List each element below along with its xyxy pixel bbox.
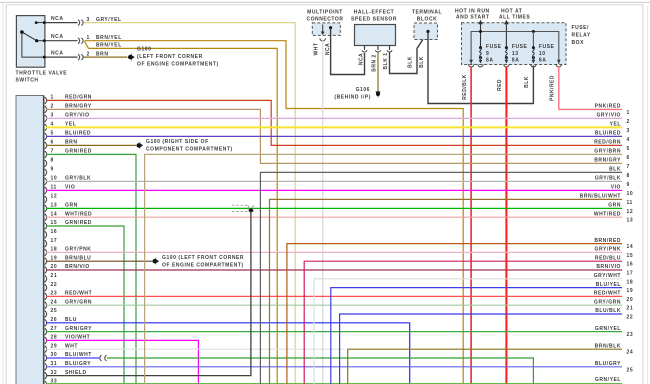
connector pin 8 <box>45 160 47 167</box>
svg-text:10: 10 <box>539 51 546 57</box>
svg-text:15: 15 <box>51 220 58 226</box>
wire pin 31 BLU/GRY straight <box>46 366 622 368</box>
svg-text:BLU/YEL: BLU/YEL <box>596 282 621 288</box>
svg-text:NCA: NCA <box>51 16 63 22</box>
wire pin 6 BRN to G100 right side <box>46 144 136 146</box>
connector pin 30 <box>45 355 47 362</box>
svg-text:TERMINAL: TERMINAL <box>412 10 442 16</box>
svg-text:BLK: BLK <box>609 167 621 173</box>
svg-text:9: 9 <box>627 182 630 188</box>
svg-text:BRN/VIO: BRN/VIO <box>596 264 621 270</box>
svg-text:RED/WHT: RED/WHT <box>594 291 621 297</box>
svg-text:GRY/PNK: GRY/PNK <box>65 247 91 253</box>
wire BLU/BLK riser <box>340 314 622 384</box>
svg-text:VIO: VIO <box>611 185 621 191</box>
svg-text:WHT/RED: WHT/RED <box>65 211 92 217</box>
svg-text:OF ENGINE COMPARTMENT): OF ENGINE COMPARTMENT) <box>137 62 219 68</box>
wire pin 4 YEL straight <box>46 126 622 128</box>
svg-text:MULTIPOINT: MULTIPOINT <box>307 10 343 16</box>
svg-text:GRY/BLK: GRY/BLK <box>65 176 91 182</box>
left connector (control module) <box>16 96 44 384</box>
wire BLK from sensor pin 1 to terminal block <box>390 32 429 74</box>
svg-text:19: 19 <box>627 288 634 294</box>
svg-text:FUSE/: FUSE/ <box>572 25 590 31</box>
svg-text:BLK: BLK <box>524 76 530 88</box>
wire pin 19 BRN/BLU to G100 <box>46 260 152 262</box>
svg-text:BLU/BLK: BLU/BLK <box>595 308 621 314</box>
svg-text:BRN: BRN <box>96 51 108 57</box>
svg-text:PNK/RED: PNK/RED <box>595 104 621 110</box>
connector pin 6 <box>45 142 47 149</box>
svg-text:9: 9 <box>486 51 489 57</box>
svg-text:8A: 8A <box>512 58 520 64</box>
svg-text:26: 26 <box>51 317 58 323</box>
connector pin 18 <box>45 249 47 256</box>
svg-text:10: 10 <box>51 176 58 182</box>
svg-text:4: 4 <box>627 137 630 143</box>
connector pin 13 <box>45 205 47 212</box>
svg-text:27: 27 <box>51 326 58 332</box>
svg-text:BRN/BLK: BRN/BLK <box>595 343 621 349</box>
svg-text:FUSE: FUSE <box>486 44 502 50</box>
svg-text:16: 16 <box>51 229 58 235</box>
svg-text:3: 3 <box>627 128 630 134</box>
connector pin 15 <box>45 223 47 230</box>
svg-text:(LEFT FRONT CORNER: (LEFT FRONT CORNER <box>137 54 203 60</box>
wire pin 26 BLU down <box>46 323 410 384</box>
connector pin 32 <box>45 372 47 379</box>
svg-text:VIO/WHT: VIO/WHT <box>65 335 90 341</box>
throttle valve switch <box>16 16 45 68</box>
svg-text:GRY/BLK: GRY/BLK <box>595 176 621 182</box>
svg-text:3: 3 <box>87 17 90 23</box>
connector pin 20 <box>45 267 47 274</box>
wire pin 5 BLU/RED straight <box>46 135 622 137</box>
svg-text:1: 1 <box>51 95 54 101</box>
svg-text:20: 20 <box>627 297 634 303</box>
inline connector on GRN wire <box>232 204 247 206</box>
svg-text:BRN 2: BRN 2 <box>372 54 378 72</box>
svg-text:RED/BLU: RED/BLU <box>595 255 621 261</box>
svg-text:GRN/YEL: GRN/YEL <box>595 377 621 383</box>
svg-text:RELAY: RELAY <box>572 33 591 39</box>
wire pin 2 BRN/GRY to right row 7 <box>46 109 622 163</box>
svg-text:3: 3 <box>51 113 54 119</box>
svg-text:NCA: NCA <box>325 43 331 55</box>
wire pin 14 WHT/RED straight <box>46 216 622 218</box>
svg-text:VIO: VIO <box>65 185 75 191</box>
svg-text:31: 31 <box>51 361 58 367</box>
wire RED from fuse 13 <box>505 67 507 384</box>
connector pin 24 <box>45 302 47 309</box>
svg-text:5: 5 <box>51 131 54 137</box>
connector pin 33 <box>45 381 47 384</box>
wire pin 10 GRY/BLK straight <box>46 180 622 182</box>
svg-text:BLU/WHT: BLU/WHT <box>65 352 92 358</box>
wire pin 24 GRY/GRN straight <box>46 304 622 306</box>
svg-text:G100 (LEFT FRONT CORNER: G100 (LEFT FRONT CORNER <box>162 255 244 261</box>
wire GRY/BRN riser <box>145 154 622 384</box>
svg-text:ALL TIMES: ALL TIMES <box>499 15 530 21</box>
svg-text:SPEED SENSOR: SPEED SENSOR <box>351 17 397 23</box>
svg-text:8A: 8A <box>539 58 547 64</box>
svg-text:BLK: BLK <box>408 56 414 68</box>
svg-text:BRN: BRN <box>65 140 77 146</box>
ground G100 (left front corner) top <box>130 54 132 61</box>
svg-text:12: 12 <box>51 194 58 200</box>
svg-text:GRY/BRN: GRY/BRN <box>594 149 621 155</box>
svg-text:8A: 8A <box>486 58 494 64</box>
connector pin 16 <box>45 231 47 238</box>
svg-text:PNK/RED: PNK/RED <box>550 75 556 101</box>
svg-text:THROTTLE VALVE: THROTTLE VALVE <box>16 71 68 77</box>
connector pin 7 <box>45 151 47 158</box>
svg-text:GRN/RED: GRN/RED <box>65 220 92 226</box>
fuse 10 <box>532 46 535 49</box>
connector pin 27 <box>45 328 47 335</box>
svg-text:GRY/VIO: GRY/VIO <box>65 113 90 119</box>
svg-text:18: 18 <box>51 247 58 253</box>
connector pin 22 <box>45 284 47 291</box>
svg-text:BLK: BLK <box>419 56 425 68</box>
svg-text:17: 17 <box>51 238 58 244</box>
wire pin 29 WHT <box>46 348 345 350</box>
connector pin 29 <box>45 346 47 353</box>
svg-text:NCA: NCA <box>359 53 365 65</box>
svg-text:G100 (RIGHT SIDE OF: G100 (RIGHT SIDE OF <box>146 139 209 145</box>
throttle lead 2 <box>46 56 78 58</box>
wire pin 18 GRY/PNK straight <box>46 251 622 253</box>
wire pin 28 VIO/WHT down <box>46 340 198 384</box>
wire BLK riser <box>260 172 622 384</box>
svg-text:HOT AT: HOT AT <box>501 9 522 15</box>
svg-text:WHT/RED: WHT/RED <box>594 211 621 217</box>
wire pin 32 SHIELD up to GRN tap <box>46 211 251 375</box>
svg-text:29: 29 <box>51 343 58 349</box>
svg-text:13: 13 <box>512 51 519 57</box>
svg-text:25: 25 <box>627 367 634 373</box>
wire BRN/BLU/WHT riser <box>270 199 623 384</box>
wire pin 23 RED/WHT straight <box>46 295 622 297</box>
svg-text:9: 9 <box>51 167 54 173</box>
connector pin 5 <box>45 133 47 140</box>
svg-text:HOT IN RUN: HOT IN RUN <box>455 9 490 15</box>
svg-text:BRN/BLU: BRN/BLU <box>65 255 91 261</box>
svg-text:24: 24 <box>51 299 58 305</box>
wire pin 15 GRN/RED down <box>46 226 124 384</box>
wire pin 33 GRN/YEL (at cut edge, mostly off-screen) <box>46 383 622 384</box>
svg-text:11: 11 <box>51 185 57 191</box>
svg-text:17: 17 <box>627 271 634 277</box>
svg-text:BRN/BLU/WHT: BRN/BLU/WHT <box>580 194 621 200</box>
wire WHT from multipoint connector <box>322 40 324 384</box>
ground G100 (right side) <box>139 142 141 149</box>
svg-text:16: 16 <box>627 262 634 268</box>
svg-text:RED/GRN: RED/GRN <box>65 95 92 101</box>
connector pin 12 <box>45 196 47 203</box>
connector pin 28 <box>45 337 47 344</box>
svg-text:22: 22 <box>51 282 58 288</box>
svg-text:2: 2 <box>627 119 630 125</box>
svg-text:NCA: NCA <box>51 34 63 40</box>
svg-text:1: 1 <box>87 35 90 41</box>
svg-text:BRN/GRY: BRN/GRY <box>65 104 92 110</box>
svg-text:GRY/WHT: GRY/WHT <box>594 273 621 279</box>
svg-text:24: 24 <box>627 350 634 356</box>
svg-text:25: 25 <box>51 308 58 314</box>
svg-text:FUSE: FUSE <box>512 44 528 50</box>
svg-text:6: 6 <box>51 140 54 146</box>
svg-text:7: 7 <box>627 164 630 170</box>
svg-text:SWITCH: SWITCH <box>16 78 39 84</box>
wire GRY/YEL from throttle terminal 3 <box>84 23 296 384</box>
connector pin 10 <box>45 178 47 185</box>
frame <box>0 1 650 3</box>
wire pin 3 GRY/VIO straight <box>46 117 622 119</box>
svg-text:BLU/RED: BLU/RED <box>595 131 621 137</box>
power feed arrow at x=506.4 <box>505 23 507 48</box>
svg-text:BRN/VIO: BRN/VIO <box>65 264 90 270</box>
svg-text:G100: G100 <box>137 47 151 53</box>
connector pin 21 <box>45 275 47 282</box>
connector pin 11 <box>45 187 47 194</box>
connector pin 26 <box>45 319 47 326</box>
connector pin 2 <box>45 106 47 113</box>
svg-text:11: 11 <box>627 200 633 206</box>
wire BLU/YEL riser <box>331 288 622 384</box>
wire pin 13 GRN straight <box>46 207 622 209</box>
svg-text:32: 32 <box>51 370 58 376</box>
svg-text:(BEHIND I/P): (BEHIND I/P) <box>334 95 371 101</box>
svg-text:GRN/GRY: GRN/GRY <box>65 326 92 332</box>
svg-text:GRN/YEL: GRN/YEL <box>595 326 621 332</box>
svg-text:NCA: NCA <box>51 51 63 57</box>
throttle lead 3 <box>46 22 78 24</box>
svg-text:OF ENGINE COMPARTMENT): OF ENGINE COMPARTMENT) <box>162 263 244 269</box>
svg-text:GRN: GRN <box>65 203 78 209</box>
wire RED/BLU riser <box>304 261 622 384</box>
svg-text:13: 13 <box>627 218 634 224</box>
ground G106 <box>377 91 379 98</box>
wire GRY/WHT riser <box>314 279 622 384</box>
wire NCA from multipoint connector to sensor <box>331 28 365 75</box>
wire BLK from terminal block to fuse 10 <box>428 32 533 104</box>
wire pin 27 GRN/GRY straight to row 23 <box>46 331 622 333</box>
svg-text:13: 13 <box>51 203 58 209</box>
svg-text:23: 23 <box>51 291 58 297</box>
svg-text:30: 30 <box>51 352 58 358</box>
svg-text:18: 18 <box>627 279 634 285</box>
wire pin 7 GRN/RED down <box>46 154 136 384</box>
svg-text:HALL-EFFECT: HALL-EFFECT <box>354 10 395 16</box>
svg-text:10: 10 <box>627 191 634 197</box>
connector pin 1 <box>45 97 47 104</box>
bus bar inside fuse box <box>471 32 559 65</box>
wire BRN/YEL branch (lower) <box>85 41 278 384</box>
svg-text:BOX: BOX <box>572 40 585 46</box>
svg-text:BRN/RED: BRN/RED <box>594 238 621 244</box>
connector pin 4 <box>45 124 47 131</box>
connector pin 9 <box>45 169 47 176</box>
connector pin 19 <box>45 258 47 265</box>
svg-text:BLU/RED: BLU/RED <box>65 131 91 137</box>
svg-text:23: 23 <box>627 332 634 338</box>
power feed arrow at x=480.5 <box>480 23 482 48</box>
svg-text:2: 2 <box>51 104 54 110</box>
wire BRN/RED riser <box>287 244 622 384</box>
svg-text:WHT: WHT <box>65 343 78 349</box>
connector pin 17 <box>45 240 47 247</box>
svg-text:8: 8 <box>627 173 630 179</box>
wire RED/BLK from fuse box <box>470 67 472 384</box>
svg-text:19: 19 <box>51 255 58 261</box>
svg-text:14: 14 <box>627 244 634 250</box>
svg-text:BLK 1: BLK 1 <box>383 53 389 70</box>
svg-text:BRN/YEL: BRN/YEL <box>96 35 122 41</box>
svg-text:1: 1 <box>627 110 630 116</box>
wire pin 20 BRN/VIO straight <box>46 269 622 271</box>
svg-text:RED: RED <box>497 79 503 91</box>
svg-text:COMPONENT COMPARTMENT): COMPONENT COMPARTMENT) <box>146 147 233 153</box>
svg-text:22: 22 <box>627 315 634 321</box>
wire pin 1 RED/GRN to right row 5 <box>46 100 622 145</box>
wire GRN continuation of pin 30 down <box>107 358 533 384</box>
svg-text:2: 2 <box>87 51 90 57</box>
throttle lead 1 <box>46 40 78 42</box>
fuse 9 <box>479 46 482 49</box>
ground G100 (left front corner) <box>155 258 157 265</box>
svg-text:15: 15 <box>627 253 634 259</box>
wire BRN from sensor pin 2 to G106 <box>377 53 379 93</box>
svg-text:28: 28 <box>51 335 58 341</box>
svg-text:7: 7 <box>51 149 54 155</box>
svg-text:14: 14 <box>51 211 58 217</box>
connector pin 14 <box>45 214 47 221</box>
shield tap junction on GRN wire <box>249 208 253 212</box>
svg-text:BLU: BLU <box>65 317 77 323</box>
svg-text:YEL: YEL <box>610 122 621 128</box>
svg-text:SHIELD: SHIELD <box>65 370 87 376</box>
connector pin 23 <box>45 293 47 300</box>
svg-text:8: 8 <box>51 158 54 164</box>
svg-text:GRN: GRN <box>608 203 621 209</box>
svg-text:BLOCK: BLOCK <box>417 17 438 23</box>
svg-text:GRY/GRN: GRY/GRN <box>594 299 621 305</box>
svg-text:20: 20 <box>51 264 58 270</box>
svg-text:6: 6 <box>627 155 630 161</box>
svg-text:5: 5 <box>627 146 630 152</box>
wire BRN/BLK riser <box>348 349 622 384</box>
svg-text:GRY/YEL: GRY/YEL <box>96 17 122 23</box>
svg-text:GRY/GRN: GRY/GRN <box>65 299 92 305</box>
connector pin 31 <box>45 363 47 370</box>
wire pin 30 BLU/WHT with inline connector <box>46 357 99 359</box>
svg-text:GRN/RED: GRN/RED <box>65 149 92 155</box>
svg-text:21: 21 <box>51 273 58 279</box>
svg-text:BRN/GRY: BRN/GRY <box>594 158 621 164</box>
svg-text:GRY/VIO: GRY/VIO <box>596 113 621 119</box>
fuse 13 <box>505 46 508 49</box>
svg-text:RED/WHT: RED/WHT <box>65 291 92 297</box>
svg-text:21: 21 <box>627 306 634 312</box>
svg-text:BRN/YEL: BRN/YEL <box>96 43 122 49</box>
svg-text:GRY/PNK: GRY/PNK <box>595 247 621 253</box>
svg-text:RED/BLK: RED/BLK <box>462 74 468 100</box>
wire pin 11 VIO straight <box>46 189 622 191</box>
svg-text:BLU/GRY: BLU/GRY <box>595 361 621 367</box>
svg-text:12: 12 <box>627 209 634 215</box>
svg-text:G106: G106 <box>356 87 370 93</box>
wire BRN/YEL from throttle terminal 1 (upper) <box>85 41 464 384</box>
svg-text:CONNECTOR: CONNECTOR <box>306 17 343 23</box>
connector pin 25 <box>45 311 47 318</box>
wire PNK/RED from fuse box to row 1 <box>559 67 622 110</box>
svg-text:RED/GRN: RED/GRN <box>594 140 621 146</box>
connector pin 3 <box>45 115 47 122</box>
svg-text:FUSE: FUSE <box>539 44 555 50</box>
svg-text:BLU/GRY: BLU/GRY <box>65 361 91 367</box>
wire BRN from throttle terminal 2 to G100 <box>84 56 128 58</box>
svg-text:AND START: AND START <box>456 15 489 21</box>
svg-text:WHT: WHT <box>313 43 319 56</box>
